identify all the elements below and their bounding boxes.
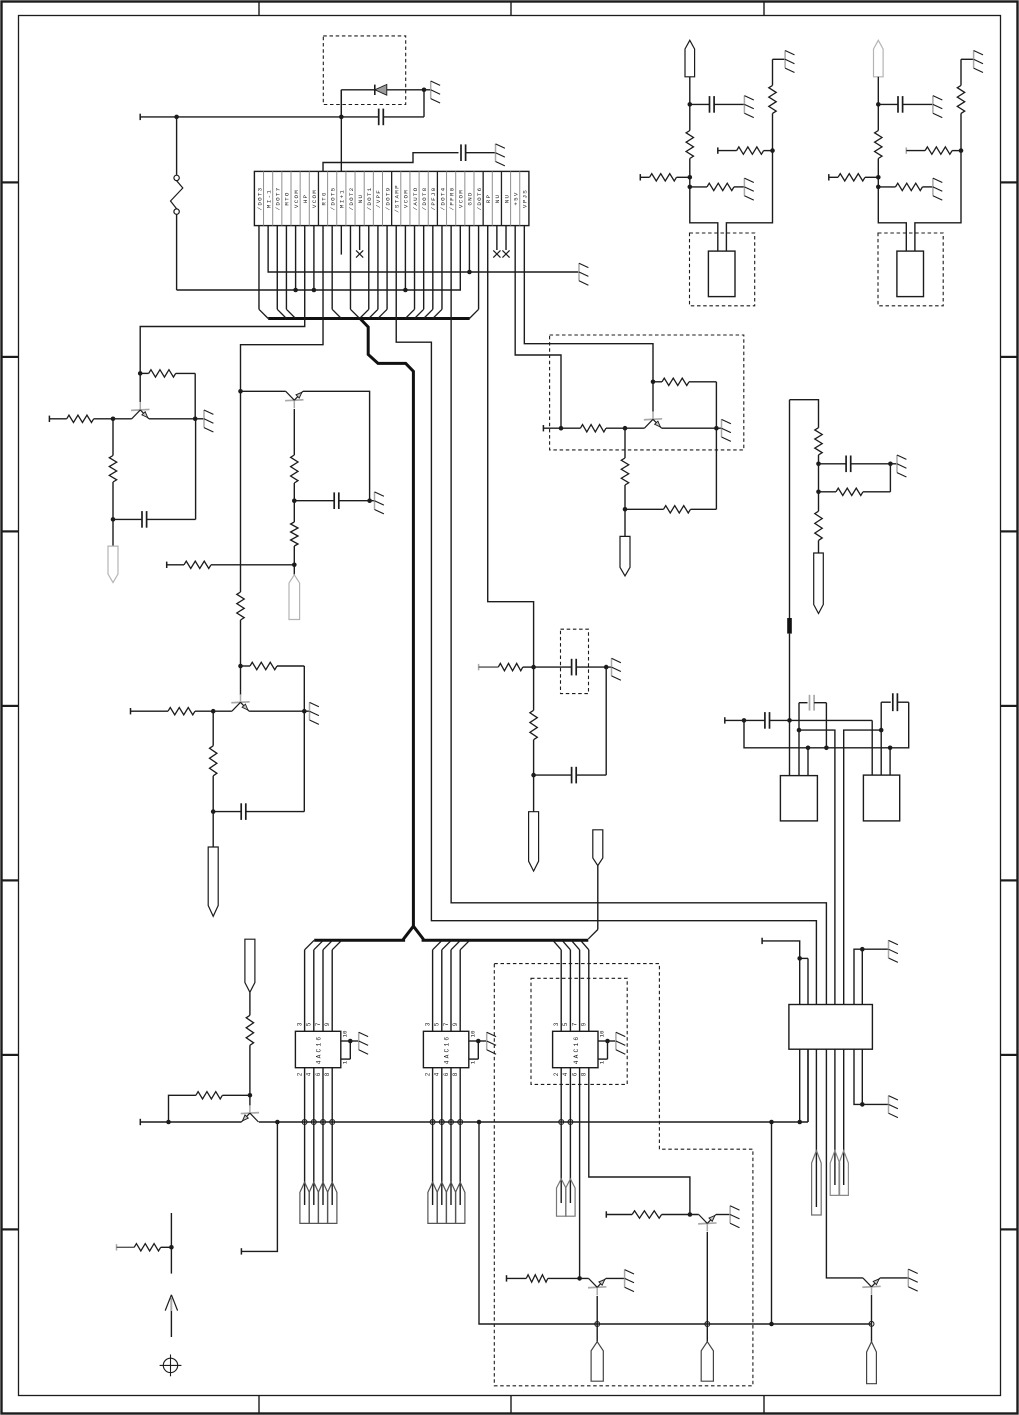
svg-text:10: 10 xyxy=(469,1030,476,1037)
svg-text:GND: GND xyxy=(467,191,474,205)
bus entry /DOT4 xyxy=(433,226,442,319)
svg-text:1: 1 xyxy=(341,1060,348,1064)
wire MI-1 to ground net xyxy=(268,226,579,275)
IC pin10 and pin1 ground bracket xyxy=(341,1039,359,1059)
svg-text:/AUTO: /AUTO xyxy=(412,187,419,211)
svg-text:8: 8 xyxy=(581,1072,588,1076)
IC3 pin6 wire to Q6 base xyxy=(579,1068,581,1279)
svg-text:/VPF: /VPF xyxy=(375,189,382,208)
svg-text:9: 9 xyxy=(324,1022,331,1026)
ground at Q8 xyxy=(908,1269,917,1291)
wire Q6 collector down to flag xyxy=(596,1296,598,1342)
svg-text:7: 7 xyxy=(443,1022,450,1026)
svg-text:MI-1: MI-1 xyxy=(265,189,272,208)
bus entry /DOT5 xyxy=(332,226,341,319)
junction lower node xyxy=(876,185,881,190)
svg-text:7: 7 xyxy=(571,1022,578,1026)
wire VCOM pin 7 stub xyxy=(313,226,315,290)
ground at C2 xyxy=(496,144,505,166)
cap box right (black cap) xyxy=(879,693,909,775)
svg-text:/DOT2: /DOT2 xyxy=(348,187,355,211)
wire +5V pin to Q4 base node xyxy=(515,226,561,429)
bus entry /VPF xyxy=(369,226,378,319)
CN2 pin2 bottom corner xyxy=(807,1049,809,1122)
wire to crystal pin 1 xyxy=(690,177,718,251)
wire Q6 emitter to ground xyxy=(606,1277,625,1279)
wire /STAMP long route H2 xyxy=(396,226,816,1005)
dashed box around Q4 circuit xyxy=(550,335,744,450)
wire Q1 emitter to ground node xyxy=(149,417,198,422)
ground at left resistor xyxy=(933,178,942,200)
frame zone ticks bottom edge xyxy=(259,1396,764,1413)
svg-text:4AC16: 4AC16 xyxy=(316,1035,323,1065)
bus Y-split right xyxy=(413,926,588,940)
svg-text:9: 9 xyxy=(581,1022,588,1026)
net flag above Q5 xyxy=(245,939,255,992)
resistor below Q4 base xyxy=(621,428,628,511)
CN2 pins 7-8 top tie to ground xyxy=(854,947,889,1005)
IC pin10 label xyxy=(469,1030,476,1037)
crystal resonator xyxy=(897,251,924,297)
svg-text:VCOM: VCOM xyxy=(311,189,318,208)
input wire to CN2 pins 1-2 xyxy=(762,938,808,961)
wire VCOM bus line xyxy=(177,226,461,293)
frame zone ticks top edge xyxy=(259,3,764,16)
CN2 pin1 top xyxy=(799,958,801,1004)
wire flag to cap node xyxy=(876,77,881,107)
svg-text:RTG: RTG xyxy=(320,191,327,205)
resistor below Q2 xyxy=(291,409,298,503)
svg-text:+5V: +5V xyxy=(512,191,519,205)
IC bottom pin numbers xyxy=(424,1072,459,1076)
wire stub to resistor chain xyxy=(790,400,819,428)
bus entry /DOT6 xyxy=(469,226,478,319)
svg-text:10: 10 xyxy=(341,1030,348,1037)
ground at oscillator cap xyxy=(744,96,753,118)
bus entry /DOT9 xyxy=(378,226,387,319)
wire line B left segment xyxy=(799,730,835,1004)
transistor Q8 xyxy=(862,1278,880,1295)
net flag Q6 xyxy=(591,1342,603,1382)
cap box left (gray cap) xyxy=(797,695,827,776)
bus entry /DOT3 xyxy=(259,226,268,319)
net flag circuit 2 xyxy=(289,565,300,620)
svg-text:6: 6 xyxy=(571,1072,578,1076)
svg-text:4: 4 xyxy=(306,1072,313,1076)
junction lower node xyxy=(688,185,693,190)
input resistor mid (oscillator) xyxy=(906,147,963,154)
capacitor (circuit 3) xyxy=(213,711,304,820)
ground at Q6 xyxy=(625,1270,634,1292)
ground at chain cap xyxy=(890,455,906,477)
input resistor mid (oscillator) xyxy=(718,147,775,154)
alignment crosshair symbol xyxy=(160,1355,182,1377)
wire vertical from main net xyxy=(771,1122,773,1324)
svg-text:4: 4 xyxy=(562,1072,569,1076)
crossing circles IC3 pins xyxy=(559,1120,573,1125)
svg-text:VCOM: VCOM xyxy=(458,189,465,208)
crystal resonator xyxy=(708,251,735,297)
svg-text:MTO: MTO xyxy=(284,191,291,205)
svg-text:1: 1 xyxy=(599,1060,606,1064)
svg-text:4: 4 xyxy=(434,1072,441,1076)
CN2 pin3 bottom to flag xyxy=(815,1049,817,1207)
dashed box around crystal xyxy=(878,233,943,306)
wire long vertical to crystal pin 1 xyxy=(787,400,792,776)
ground at circuit 2 xyxy=(370,492,384,514)
svg-text:VCOM: VCOM xyxy=(403,189,410,208)
IC 4AC16 label (third) xyxy=(573,1035,580,1065)
net flags IC outputs xyxy=(428,1182,465,1223)
svg-text:/STAMP: /STAMP xyxy=(394,184,401,213)
crossing circle Q7 collector xyxy=(705,1322,710,1327)
net flags IC3 outputs xyxy=(557,1179,576,1216)
wire flag to resistor xyxy=(249,992,251,1015)
capacitor (chain) xyxy=(819,456,893,473)
svg-text:NU: NU xyxy=(494,194,501,204)
ground CN2 top xyxy=(889,940,898,962)
crystal resonator right xyxy=(863,775,899,821)
svg-text:4AC16: 4AC16 xyxy=(444,1035,451,1065)
svg-text:9: 9 xyxy=(452,1022,459,1026)
svg-text:VCOM: VCOM xyxy=(293,189,300,208)
CN2 pin5 bottom to flag xyxy=(834,1049,836,1185)
wire VCOM pin 17 stub xyxy=(404,226,406,290)
wire to crystal pin 2 xyxy=(915,151,961,252)
net flag CN2 pin3 xyxy=(812,1151,822,1215)
IC bottom pin wires xyxy=(433,1068,461,1205)
connector CN1 body xyxy=(254,171,529,225)
IC top pin numbers xyxy=(296,1022,331,1026)
transistor Q1 xyxy=(131,373,149,418)
wire MI+1 pin up to diode circuit xyxy=(339,90,344,172)
svg-text:HP: HP xyxy=(302,194,309,204)
input resistor left (oscillator) xyxy=(640,174,692,181)
bus entry /DOT1 xyxy=(360,226,369,319)
fuse F2 (filled) xyxy=(787,618,792,634)
wire Q3 emitter to ground node xyxy=(249,709,307,714)
svg-text:/DOT7: /DOT7 xyxy=(275,187,282,211)
resistor vertical (oscillator right) xyxy=(957,59,964,150)
ground at Q1 xyxy=(195,410,213,432)
wire Q7 collector down to flag xyxy=(706,1232,708,1342)
resistor vertical (oscillator left) xyxy=(875,104,882,177)
crossing circles IC1 pins xyxy=(302,1120,335,1125)
capacitor (circuit 1) xyxy=(113,419,196,528)
main horizontal net wire xyxy=(140,1049,808,1125)
dashed box outer (driver section) xyxy=(494,964,753,1386)
oscillator line A with capacitor xyxy=(725,712,872,729)
svg-text:10: 10 xyxy=(599,1030,606,1037)
transistor Q6 xyxy=(588,1278,606,1295)
IC 4AC16 body (third) xyxy=(553,1031,598,1067)
IC 4AC16 body xyxy=(295,1031,340,1067)
svg-text:7: 7 xyxy=(315,1022,322,1026)
capacitor C2 xyxy=(461,144,496,161)
resistor R lower (chain) xyxy=(815,464,822,553)
IC3 bottom pin numbers xyxy=(553,1072,588,1076)
wire RP pin long vertical with jog xyxy=(488,226,536,670)
frame zone ticks left edge xyxy=(3,182,19,1229)
capacitor C1 on MI+1 node xyxy=(341,90,424,125)
svg-text:/DOT5: /DOT5 xyxy=(329,187,336,211)
svg-text:MI+1: MI+1 xyxy=(339,189,346,208)
capacitor to ground (oscillator) xyxy=(878,96,933,113)
reference arrow symbol xyxy=(165,1295,177,1337)
ground at oscillator cap xyxy=(933,96,942,118)
svg-text:2: 2 xyxy=(296,1072,303,1076)
wire to transistor Q2 xyxy=(241,390,286,392)
wire line B right segment xyxy=(844,730,882,1004)
ground at IC pin10 xyxy=(359,1032,368,1054)
wire /PFR0 long route H1 xyxy=(451,226,826,1005)
dashed box inner around IC3 xyxy=(531,978,627,1084)
svg-text:6: 6 xyxy=(315,1072,322,1076)
svg-text:VPJS: VPJS xyxy=(522,189,529,208)
bus entry /AUTO xyxy=(405,226,414,319)
IC3 pin1 label xyxy=(599,1060,606,1064)
wire Q5 collector down-left to terminal xyxy=(241,1122,277,1255)
net flag (oscillator) xyxy=(874,40,884,77)
svg-text:NU: NU xyxy=(503,194,510,204)
net flag chain xyxy=(814,553,824,614)
IC top pin wires from bus fan xyxy=(305,940,342,1031)
svg-text:/DOT9: /DOT9 xyxy=(384,187,391,211)
ground on MI-1 net xyxy=(579,263,588,285)
ground at Q7 xyxy=(730,1206,739,1228)
resistor collector (Q4) xyxy=(653,378,716,428)
wire HP-node horizontal to left component xyxy=(140,114,341,120)
transistor Q4 xyxy=(644,382,662,428)
net flag (oscillator) xyxy=(685,40,695,77)
junction RTG to Q2 base xyxy=(238,389,243,394)
data bus thick horizontal xyxy=(268,317,469,320)
bus entry /PFJ0 xyxy=(424,226,433,319)
crossing circle Q6 collector xyxy=(595,1322,600,1327)
wire MI+1 stub below xyxy=(340,226,342,255)
ground at C3 xyxy=(606,658,621,680)
resistor horizontal (chain) xyxy=(816,464,890,496)
wire crystal right pin 3 xyxy=(889,748,891,775)
wire VPJS pin to Q4 collector xyxy=(524,226,655,385)
connector CN2 body xyxy=(789,1005,873,1050)
input resistor bottom-left xyxy=(117,1244,174,1251)
IC bottom pin wires xyxy=(305,1068,333,1205)
wire Q2 emitter to cap node xyxy=(303,391,370,500)
IC top pin numbers xyxy=(424,1022,459,1026)
ground at left resistor xyxy=(744,178,753,200)
IC 4AC16 label xyxy=(444,1035,451,1065)
crossing circles IC2 pins xyxy=(430,1120,463,1125)
resistor to ground (oscillator left) xyxy=(690,183,745,190)
junction circuit 3 top xyxy=(238,664,243,669)
resistor vertical (RC circuit) xyxy=(530,667,537,777)
net flag circuit 3 xyxy=(208,812,218,917)
svg-text:/PFR0: /PFR0 xyxy=(448,187,455,211)
crossing circle Q8 collector xyxy=(869,1321,874,1326)
net flags IC outputs xyxy=(300,1182,337,1223)
svg-text:/DOT3: /DOT3 xyxy=(256,187,263,211)
svg-text:/DOT8: /DOT8 xyxy=(421,187,428,211)
resistor vertical (oscillator left) xyxy=(686,104,693,177)
svg-text:2: 2 xyxy=(553,1072,560,1076)
svg-text:/DOT1: /DOT1 xyxy=(366,187,373,211)
resistor vertical (circuit 1) xyxy=(109,419,116,522)
feedback loop Q5 xyxy=(169,1092,253,1122)
svg-text:8: 8 xyxy=(452,1072,459,1076)
ground CN2 bottom xyxy=(889,1096,898,1118)
IC 4AC16 label xyxy=(316,1035,323,1065)
transistor Q7 xyxy=(698,1215,716,1232)
svg-text:2: 2 xyxy=(424,1072,431,1076)
resistor in RTG vertical xyxy=(237,592,244,666)
net flag circuit 1 xyxy=(108,519,118,582)
connector CN1 pin labels xyxy=(256,184,528,213)
no-connect stub NU pin 28 xyxy=(502,226,509,258)
wire Q4 emitter to ground node xyxy=(662,426,719,431)
svg-text:NU: NU xyxy=(357,194,364,204)
net flag RC circuit xyxy=(529,775,539,871)
svg-text:5: 5 xyxy=(434,1022,441,1026)
svg-text:/DOT4: /DOT4 xyxy=(439,187,446,211)
net flag at bus end xyxy=(593,830,603,866)
resistor feedback (circuit 3) xyxy=(241,662,305,711)
IC3 top pin numbers xyxy=(553,1022,588,1026)
ground at Q3 xyxy=(304,702,319,724)
ground at IC pin10 xyxy=(487,1032,496,1054)
wire Q8 emitter to ground xyxy=(880,1277,908,1279)
svg-text:3: 3 xyxy=(553,1022,560,1026)
svg-text:RP: RP xyxy=(485,194,492,204)
wire A-line corner down to right crystal pin1 xyxy=(871,720,873,775)
resistor vertical (circuit 3) xyxy=(210,711,217,814)
lower horizontal net wire xyxy=(479,1122,872,1326)
svg-text:/DOT6: /DOT6 xyxy=(476,187,483,211)
svg-text:6: 6 xyxy=(443,1072,450,1076)
input resistor (circuit 1) xyxy=(49,415,131,422)
bus kink down xyxy=(360,319,413,927)
wire RTG pin up to capacitor C2 xyxy=(323,153,458,172)
input resistor Q6 xyxy=(507,1275,589,1282)
wire GND pin stub xyxy=(468,226,470,272)
resistor to ground leg (Q4) xyxy=(625,428,716,513)
capacitor to ground (oscillator) xyxy=(690,96,745,113)
svg-text:4AC16: 4AC16 xyxy=(573,1035,580,1065)
IC3 pin8 wire to Q7 base xyxy=(589,1068,690,1215)
wire bus end to net flag xyxy=(588,866,598,939)
IC3 bottom pin wires 2 and 4 xyxy=(561,1068,570,1203)
resistor R upper (chain) xyxy=(815,428,822,466)
net flag CN2 pin5 xyxy=(830,1151,839,1196)
base line and input (Q4) xyxy=(543,425,644,432)
IC top pin wires from bus fan xyxy=(433,940,470,1031)
stub vertical bottom-left xyxy=(170,1213,172,1274)
wire line C lower common xyxy=(744,702,909,750)
no-connect stub NU pin 27 xyxy=(493,226,500,258)
svg-text:1: 1 xyxy=(469,1060,476,1064)
CN2 pin1 bottom to net xyxy=(799,1049,801,1122)
dashed box around crystal xyxy=(690,233,755,306)
dashed box around C3 xyxy=(561,629,589,693)
net flag CN2 pin6 xyxy=(839,1151,848,1196)
bus entry /DOT8 xyxy=(414,226,423,319)
wire to crystal pin 2 xyxy=(726,151,772,252)
bus entry /DOT7 xyxy=(277,226,286,319)
bus entry MTO xyxy=(286,226,295,319)
wire to crystal pin 1 xyxy=(878,177,906,251)
svg-text:8: 8 xyxy=(324,1072,331,1076)
input resistor (circuit 3) xyxy=(131,708,232,715)
resistor lower (circuit 2) xyxy=(291,501,298,567)
IC bottom pin numbers xyxy=(296,1072,331,1076)
input resistor (RC circuit) xyxy=(479,663,534,670)
wire HP pin to transistor circuit 1 xyxy=(138,226,305,376)
resistor to ground (oscillator left) xyxy=(878,183,933,190)
transistor Q5 xyxy=(241,1095,259,1122)
wire RTG pin down-left long vertical xyxy=(241,226,324,592)
IC3 pin10 and pin1 ground bracket xyxy=(598,1039,616,1059)
IC pin10 and pin1 ground bracket xyxy=(469,1039,487,1059)
CN2 pin4 bottom long to Q-right xyxy=(826,1049,863,1278)
resistor feedback R (circuit 1) xyxy=(140,370,195,419)
capacitor C4 xyxy=(534,667,607,783)
input resistor (circuit 2) xyxy=(167,561,295,568)
bus Y-split left xyxy=(314,926,413,940)
svg-text:3: 3 xyxy=(296,1022,303,1026)
transistor Q3 xyxy=(231,666,249,711)
svg-text:/PFJ0: /PFJ0 xyxy=(430,187,437,211)
ground top right (oscillator) xyxy=(773,51,795,73)
capacitor C3 xyxy=(534,659,609,676)
wire VCOM pin 5 stub xyxy=(295,226,297,290)
input resistor left (oscillator) xyxy=(829,174,881,181)
ground at diode xyxy=(424,81,440,103)
resistor above Q5 xyxy=(246,1015,253,1095)
wire crystal left pin 3 xyxy=(807,748,809,776)
fuse/surge component F1 with circles xyxy=(171,117,183,290)
IC pin10 label xyxy=(341,1030,348,1037)
svg-text:3: 3 xyxy=(424,1022,431,1026)
input resistor Q7 xyxy=(606,1211,698,1218)
net flag Q8 xyxy=(867,1342,877,1384)
IC3 pin10 label xyxy=(599,1030,606,1037)
IC pin1 label xyxy=(469,1060,476,1064)
wire Q8 collector down to flag xyxy=(871,1295,873,1342)
IC 4AC16 body xyxy=(423,1031,468,1067)
net flag Q4 circuit xyxy=(620,509,630,576)
dashed box around diode D1 xyxy=(323,36,405,105)
capacitor (circuit 2) xyxy=(294,492,372,509)
IC pin1 label xyxy=(341,1060,348,1064)
CN2 pin2 top xyxy=(807,958,809,1004)
IC3 top pin wires from bus fan xyxy=(553,940,589,1031)
ground top right (oscillator) xyxy=(961,51,983,73)
frame zone ticks right edge xyxy=(1001,182,1017,1229)
wire Q7 emitter to ground xyxy=(716,1214,730,1216)
CN2 pins 7-8 bottom tie to ground xyxy=(854,1049,889,1107)
svg-text:5: 5 xyxy=(306,1022,313,1026)
junction diode-ground node xyxy=(422,88,427,93)
transistor Q2 xyxy=(285,391,303,408)
diode D1 xyxy=(341,84,424,117)
CN2 pin6 bottom to flag xyxy=(843,1049,845,1185)
ground at Q4 xyxy=(716,419,731,441)
ground at IC3 pin10 xyxy=(616,1032,625,1054)
wire flag to cap node xyxy=(688,77,693,107)
svg-text:5: 5 xyxy=(562,1022,569,1026)
net flag Q7 xyxy=(701,1342,713,1382)
bus entry /DOT2 xyxy=(350,226,359,319)
